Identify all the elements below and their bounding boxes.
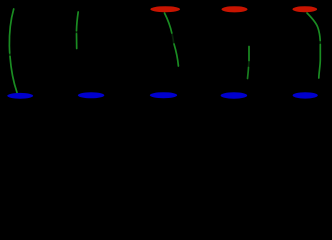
blue node B5 (bottom, column 5) <box>293 92 318 98</box>
red node R1 (top, column 3) <box>150 6 180 12</box>
blue node B4 (bottom, column 4) <box>221 92 248 98</box>
edge C (from red node R1 down-right, fades mid-way) <box>165 13 179 66</box>
edge A (top of column 1 to blue node B1) <box>9 9 17 93</box>
blue node B1 (bottom, column 1) <box>7 93 33 99</box>
edge B (short fading edge above column 2) <box>77 12 79 49</box>
blue node B3 (bottom, column 3) <box>150 92 177 98</box>
edge D (floating segment above blue node B4 right tip) <box>248 47 250 79</box>
blue node B2 (bottom, column 2) <box>78 92 104 98</box>
edge E (from red node R3 curving down, ends mid-air) <box>307 13 320 78</box>
red node R2 (top, column 4) <box>222 6 248 12</box>
red node R3 (top, column 5) <box>293 6 318 12</box>
